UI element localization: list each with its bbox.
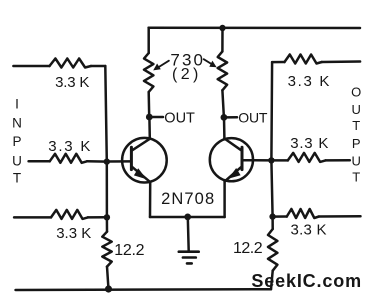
svg-text:P: P [12,134,21,149]
arrow 730 to right resistor [204,59,214,65]
transistor Q1 circle [122,138,167,183]
resistor 730 left (with top wire) [147,28,150,53]
node junction top rail / right 730 [219,25,225,31]
node junction bottom-left bus [104,214,110,220]
wire OUT right tick [227,116,238,119]
transistor Q2 circle [210,138,253,181]
node OUT left [146,114,153,121]
resistor 3.3K bottom-right [287,209,319,218]
node junction bottom-right bus [269,213,275,219]
node junction mid-left bus [104,158,110,164]
label INPUT vertical [12,96,22,185]
svg-text:O: O [351,85,361,100]
wire mid-left input stub [29,160,50,163]
wire left vertical bus [105,66,107,232]
wire right vertical bus [271,62,272,229]
arrow 730 to left resistor [156,61,169,69]
svg-text:3.3 K: 3.3 K [288,73,332,90]
resistor 12.2 left [102,232,111,267]
resistor 730 right (top wire) [221,28,224,51]
transistor Q1 emitter arrow [134,168,147,179]
wire ground stem [187,217,190,251]
wire mid-left to bus [87,160,107,163]
svg-text:3.3 K: 3.3 K [290,135,329,152]
wire bottom-right from bus [273,215,287,218]
svg-text:12.2: 12.2 [114,242,144,259]
svg-text:T: T [352,118,360,133]
wire collector Q1 [148,117,151,139]
svg-text:U: U [352,102,361,117]
svg-text:(2): (2) [172,66,202,83]
wire OUT left tick [152,116,163,119]
wire 730 right to OUT node [222,90,224,117]
label OUTPUT vertical [351,85,361,185]
transistor Q2 base bar [241,147,244,169]
svg-text:3.3 K: 3.3 K [56,225,91,242]
wire top-right output stub [322,60,360,63]
resistor 3.3K mid-right [288,153,326,162]
wire bottom-left to bus [88,216,107,219]
svg-text:T: T [13,171,21,186]
resistor 12.2 right [268,229,277,271]
svg-text:U: U [352,154,361,169]
resistor 3.3K bottom-left [51,210,88,219]
transistor Q1 emitter diagonal [131,166,150,182]
svg-text:12.2: 12.2 [233,240,263,257]
wire top-left to left bus corner [91,65,105,68]
svg-text:I: I [15,96,19,111]
resistor 3.3K top-left [50,59,92,68]
transistor Q2 collector diagonal [224,139,242,151]
svg-text:OUT: OUT [164,111,195,127]
wire 730 left to OUT node [147,92,150,117]
wire bottom ground rail [16,288,272,291]
svg-text:3.3 K: 3.3 K [291,221,327,238]
wire emitter common rail [150,216,225,219]
transistor Q1 collector diagonal [131,139,149,151]
svg-text:2N708: 2N708 [161,190,215,208]
wire right bus bottom segment [271,271,273,290]
node junction left bus to ground rail [105,285,112,292]
svg-text:T: T [352,170,360,185]
wire base Q2 to bus [242,159,271,162]
svg-text:P: P [352,136,361,151]
wire emitter Q2 down [223,182,226,218]
transistor Q1 base bar [130,147,133,169]
node junction mid-right bus [268,157,274,163]
svg-text:3.3 K: 3.3 K [48,138,92,155]
svg-text:N: N [12,116,22,131]
wire left bus bottom segment [107,267,109,290]
resistor 3.3K top-right [285,55,322,64]
svg-text:SeekIC.com: SeekIC.com [251,271,362,291]
wire bottom-left input stub [14,216,51,219]
svg-text:3.3 K: 3.3 K [55,74,89,91]
wire top-right to bus corner [272,61,284,64]
wire mid-right output stub [326,159,350,162]
resistor 3.3K mid-left [50,154,87,163]
wire base Q1 [107,160,132,163]
svg-text:OUT: OUT [238,109,268,125]
wire collector Q2 [223,117,226,138]
ground symbol [179,250,199,253]
transistor Q2 emitter arrow [228,168,240,179]
wire emitter Q1 down [149,182,152,217]
wire top-left input stub [13,65,49,68]
node OUT right [221,114,228,121]
wire bottom-right output stub [319,215,361,218]
node junction emitter rail / ground [184,214,191,221]
wire mid-right from bus [271,159,287,162]
wire top supply rail [149,26,360,29]
svg-text:U: U [12,154,22,169]
transistor Q2 emitter diagonal [225,166,242,181]
